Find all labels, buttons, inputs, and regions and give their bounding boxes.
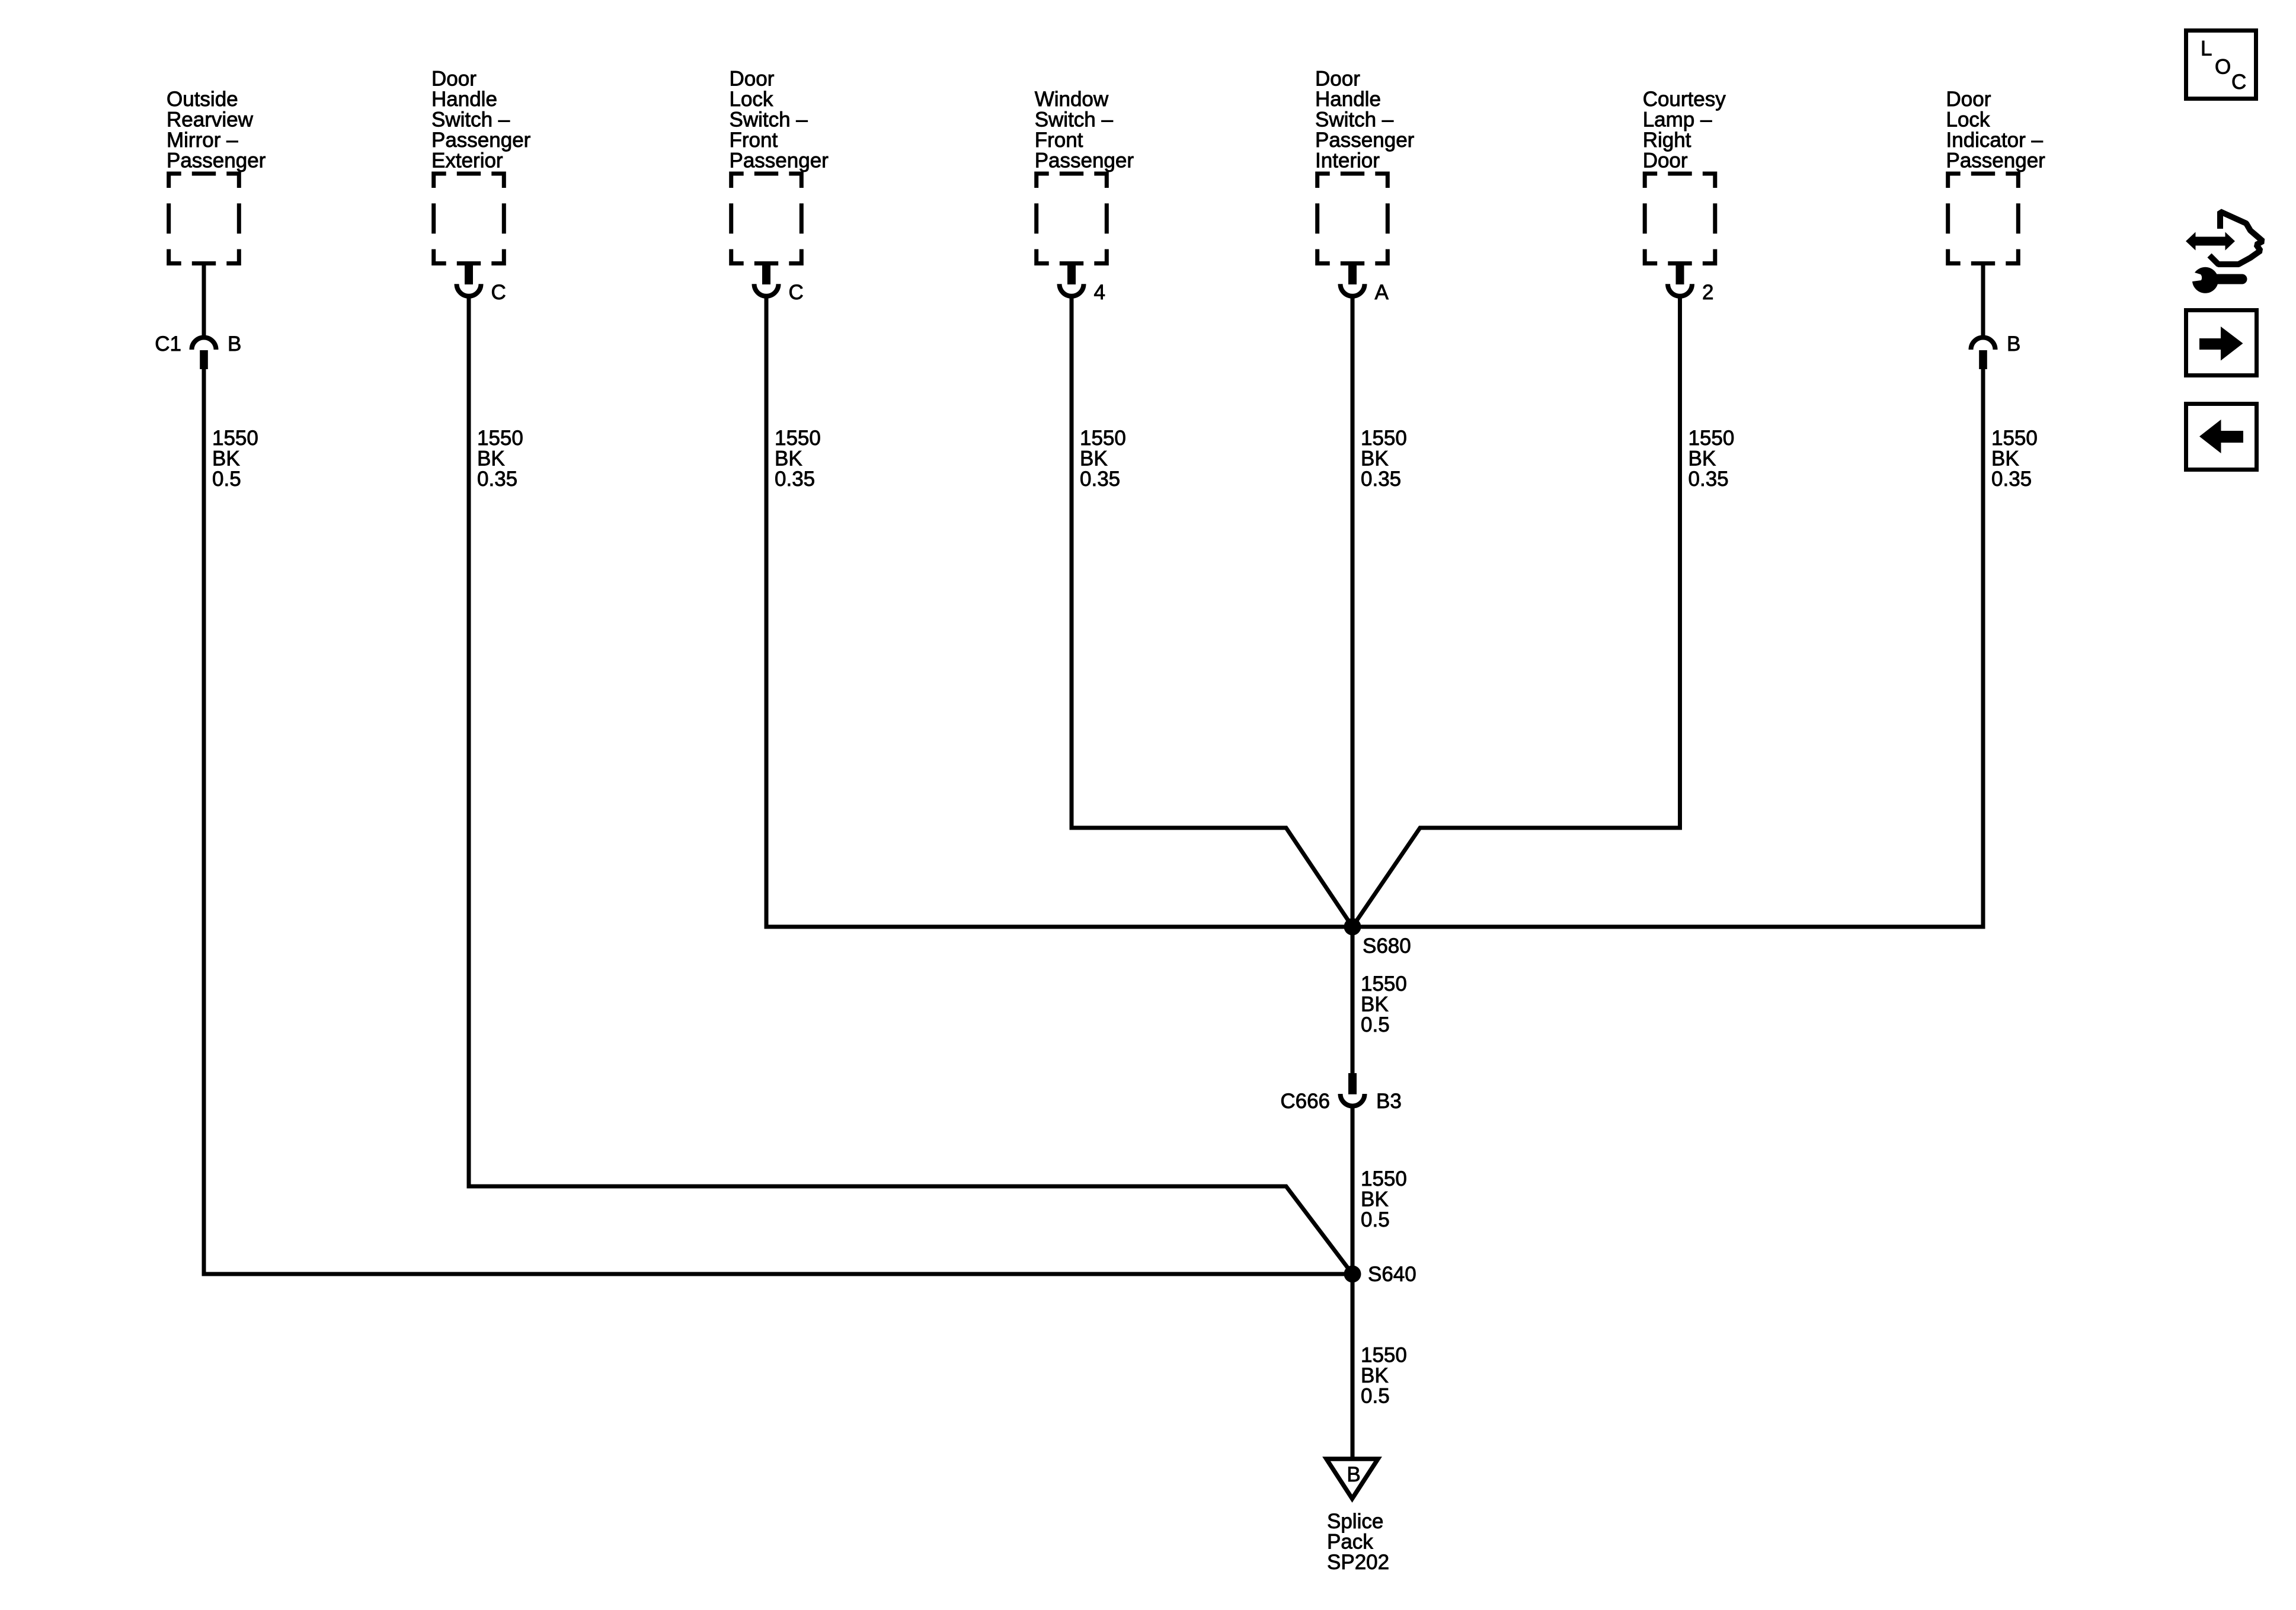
svg-text:BK: BK <box>1080 447 1108 470</box>
svg-text:1550: 1550 <box>1361 1344 1407 1367</box>
wire w2: handle exterior run to S640 <box>469 296 1352 1274</box>
wire w3: lock switch run to S680 <box>766 296 1352 927</box>
svg-text:BK: BK <box>1361 1364 1389 1387</box>
svg-text:1550: 1550 <box>1080 427 1126 450</box>
svg-text:B: B <box>1347 1463 1360 1486</box>
svg-text:Switch –: Switch – <box>1315 108 1394 132</box>
component box: Outside Rearview Mirror - Passenger <box>169 174 239 264</box>
svg-text:BK: BK <box>1361 993 1389 1016</box>
svg-text:Passenger: Passenger <box>1315 129 1415 152</box>
inline connector C666 pin B3 <box>1348 1073 1357 1094</box>
svg-text:Door: Door <box>431 68 477 91</box>
wire from Outside Rearview Mirror to connector C1 <box>202 264 206 339</box>
svg-text:BK: BK <box>1361 447 1389 470</box>
svg-text:BK: BK <box>1991 447 2019 470</box>
wire from Door Lock Indicator to connector B <box>1981 264 1985 339</box>
inline connector C1 pin B <box>192 338 216 350</box>
svg-text:Pack: Pack <box>1327 1531 1373 1554</box>
wire w7: lock indicator run to S680 <box>1352 369 1983 927</box>
svg-text:Right: Right <box>1643 129 1691 152</box>
svg-text:C: C <box>2231 71 2246 94</box>
connector pin A at Door Handle Switch Interior <box>1348 263 1357 284</box>
svg-text:L: L <box>2201 37 2212 60</box>
svg-text:Window: Window <box>1035 88 1109 111</box>
svg-text:1550: 1550 <box>477 427 523 450</box>
svg-text:Lamp –: Lamp – <box>1643 108 1712 132</box>
svg-text:Switch –: Switch – <box>730 108 808 132</box>
svg-text:Handle: Handle <box>1315 88 1381 111</box>
svg-text:2: 2 <box>1702 281 1713 304</box>
svg-text:Exterior: Exterior <box>431 149 503 172</box>
svg-text:0.35: 0.35 <box>1361 468 1401 491</box>
svg-text:1550: 1550 <box>1991 427 2038 450</box>
svg-text:B3: B3 <box>1376 1090 1402 1113</box>
svg-text:Switch –: Switch – <box>431 108 510 132</box>
wire: C666 to S640 <box>1351 1106 1355 1274</box>
svg-text:C666: C666 <box>1280 1090 1330 1113</box>
svg-text:Indicator –: Indicator – <box>1946 129 2044 152</box>
svg-text:1550: 1550 <box>1361 1167 1407 1190</box>
component box: Window Switch - Front Passenger <box>1037 174 1107 264</box>
svg-text:0.35: 0.35 <box>775 468 815 491</box>
svg-text:0.35: 0.35 <box>1689 468 1729 491</box>
svg-text:Door: Door <box>1643 149 1688 172</box>
svg-text:Door: Door <box>1946 88 1991 111</box>
svg-text:1550: 1550 <box>212 427 258 450</box>
forward arrow <box>2199 327 2243 361</box>
svg-text:Door: Door <box>1315 68 1360 91</box>
svg-text:0.5: 0.5 <box>1361 1385 1390 1408</box>
svg-text:Handle: Handle <box>431 88 497 111</box>
inline connector pin B on Door Lock Indicator wire <box>1971 338 1996 350</box>
svg-text:Lock: Lock <box>1946 108 1990 132</box>
svg-text:Courtesy: Courtesy <box>1643 88 1726 111</box>
svg-text:0.35: 0.35 <box>477 468 517 491</box>
wire w5: handle interior run to S680 <box>1351 296 1355 1074</box>
svg-text:1550: 1550 <box>1689 427 1735 450</box>
connector pin 2 at Courtesy Lamp <box>1676 263 1684 284</box>
svg-text:O: O <box>2215 56 2231 79</box>
svg-text:0.35: 0.35 <box>1991 468 2032 491</box>
connector pin C at Door Handle Switch Exterior <box>465 263 473 284</box>
component box: Door Handle Switch - Passenger Exterior <box>434 174 504 264</box>
svg-text:S680: S680 <box>1363 934 1411 958</box>
connector pin C at Door Lock Switch <box>762 263 770 284</box>
svg-text:Passenger: Passenger <box>167 149 266 172</box>
svg-text:Lock: Lock <box>730 88 773 111</box>
svg-text:C: C <box>789 281 804 304</box>
svg-text:C: C <box>491 281 506 304</box>
wire w4: window switch run to S680 <box>1072 296 1352 927</box>
svg-text:Switch –: Switch – <box>1035 108 1114 132</box>
svg-text:SP202: SP202 <box>1327 1551 1389 1574</box>
svg-text:0.5: 0.5 <box>1361 1208 1390 1231</box>
splice pack terminal triangle B <box>1326 1459 1378 1499</box>
svg-text:S640: S640 <box>1368 1263 1416 1286</box>
svg-text:0.5: 0.5 <box>1361 1013 1390 1036</box>
svg-text:Passenger: Passenger <box>1035 149 1134 172</box>
wire w6: courtesy lamp run to S680 <box>1352 296 1680 927</box>
svg-text:0.35: 0.35 <box>1080 468 1120 491</box>
svg-text:BK: BK <box>212 447 240 470</box>
svg-text:C1: C1 <box>155 332 181 356</box>
svg-text:Rearview: Rearview <box>167 108 254 132</box>
svg-text:BK: BK <box>775 447 802 470</box>
svg-text:0.5: 0.5 <box>212 468 241 491</box>
svg-text:Passenger: Passenger <box>730 149 829 172</box>
svg-text:Door: Door <box>730 68 775 91</box>
wire w1: mirror ground run to S640 <box>204 369 1352 1274</box>
svg-text:BK: BK <box>477 447 505 470</box>
wire: S640 to splice pack <box>1351 1274 1355 1458</box>
splice S680 <box>1344 918 1361 936</box>
svg-text:A: A <box>1375 281 1389 304</box>
svg-text:Passenger: Passenger <box>1946 149 2046 172</box>
component box: Door Handle Switch - Passenger Interior <box>1318 174 1388 264</box>
svg-text:B: B <box>2007 332 2020 356</box>
splice S640 <box>1344 1266 1361 1283</box>
backward arrow <box>2199 420 2243 453</box>
icon: backward arrow box <box>2186 404 2257 470</box>
svg-text:Front: Front <box>730 129 778 152</box>
svg-text:Passenger: Passenger <box>431 129 531 152</box>
svg-text:BK: BK <box>1361 1188 1389 1211</box>
svg-text:B: B <box>228 332 241 356</box>
svg-text:Interior: Interior <box>1315 149 1380 172</box>
component box: Door Lock Indicator - Passenger <box>1948 174 2019 264</box>
svg-text:4: 4 <box>1094 281 1105 304</box>
component box: Courtesy Lamp - Right Door <box>1645 174 1715 264</box>
wire: S680 to C666 <box>1351 927 1355 1074</box>
svg-text:Outside: Outside <box>167 88 238 111</box>
svg-text:1550: 1550 <box>775 427 821 450</box>
svg-text:Front: Front <box>1035 129 1083 152</box>
connector pin 4 at Window Switch <box>1067 263 1076 284</box>
svg-text:1550: 1550 <box>1361 427 1407 450</box>
component box: Door Lock Switch - Front Passenger <box>731 174 802 264</box>
svg-text:1550: 1550 <box>1361 972 1407 996</box>
svg-text:Mirror –: Mirror – <box>167 129 238 152</box>
icon: harness repair (double arrow, outline, wrench) <box>2186 212 2263 293</box>
svg-text:Splice: Splice <box>1327 1510 1383 1533</box>
icon: component location (LOC) box <box>2186 31 2256 99</box>
svg-text:BK: BK <box>1689 447 1716 470</box>
icon: forward arrow box <box>2186 311 2257 376</box>
